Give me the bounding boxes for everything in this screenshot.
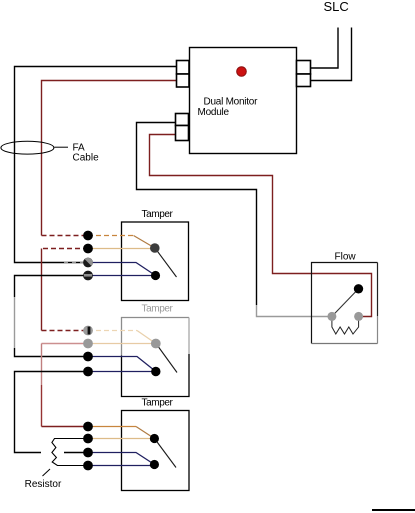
svg-text:Resistor: Resistor bbox=[25, 479, 62, 490]
svg-text:Module: Module bbox=[198, 107, 230, 118]
svg-text:SLC: SLC bbox=[324, 0, 349, 14]
svg-text:Cable: Cable bbox=[73, 153, 100, 164]
svg-text:Tamper: Tamper bbox=[142, 209, 174, 220]
svg-text:Flow: Flow bbox=[335, 251, 357, 262]
svg-text:Dual Monitor: Dual Monitor bbox=[204, 97, 259, 108]
svg-text:Tamper: Tamper bbox=[142, 304, 174, 315]
svg-text:Tamper: Tamper bbox=[142, 398, 174, 409]
